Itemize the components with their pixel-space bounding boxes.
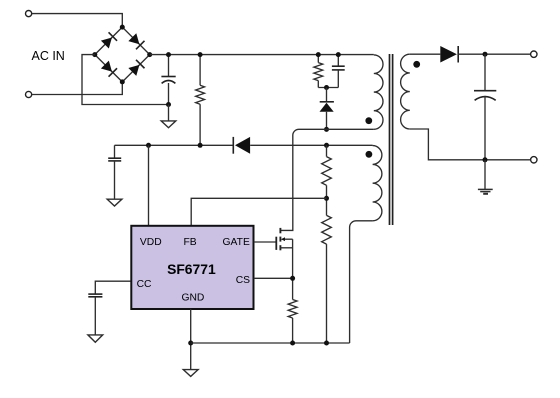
- resistor R6 aux divider lower: [322, 215, 332, 343]
- op IC U1 SF6771: [131, 226, 253, 309]
- secondary phase dot: [413, 61, 420, 68]
- primary phase dot: [365, 117, 372, 124]
- node bridge left vertex: [92, 52, 97, 57]
- label AC IN: [32, 49, 65, 63]
- pin label GND: [181, 292, 204, 303]
- transistor Q1 MOSFET: [276, 228, 292, 300]
- wire VDD rail left of D7: [115, 144, 234, 146]
- resistor R1 startup: [196, 55, 205, 146]
- output terminal bottom: [531, 157, 537, 163]
- earth ground (output): [478, 160, 493, 194]
- svg-text:AC IN: AC IN: [32, 49, 65, 63]
- node D5 anode / switch rail: [324, 127, 329, 132]
- pin label GATE: [223, 237, 250, 248]
- wire bridge left vertex to input ground node: [82, 55, 169, 105]
- wire snubber RC join: [318, 87, 338, 89]
- transformer auxiliary winding: [373, 146, 382, 221]
- capacitor C2 snubber: [332, 55, 345, 88]
- wire from bottom terminal to bridge bottom vertex: [32, 82, 123, 95]
- node bridge bottom vertex: [120, 79, 125, 84]
- bridge diode D2 (top vertex to right vertex): [128, 33, 144, 49]
- svg-text:SF6771: SF6771: [167, 261, 216, 277]
- diode D6 output rectifier: [440, 46, 530, 63]
- wire secondary bottom to output return: [410, 129, 531, 160]
- transformer core: [390, 54, 393, 225]
- node bridge right vertex: [147, 52, 152, 57]
- wire primary ground rail: [191, 342, 350, 344]
- svg-text:VDD: VDD: [140, 237, 162, 248]
- wire primary bottom to MOSFET drain: [280, 129, 373, 230]
- node GND rail: [188, 341, 193, 346]
- node R1 bottom: [198, 143, 203, 148]
- ground (CC cap): [88, 335, 103, 342]
- node CS / source: [290, 276, 295, 281]
- node aux divider bottom: [324, 341, 329, 346]
- wire from top terminal to bridge top vertex: [32, 14, 123, 28]
- node aux divider top: [324, 143, 329, 148]
- bridge diode D1 (left vertex to top vertex): [101, 32, 117, 48]
- pin label FB: [184, 237, 197, 248]
- diode D7 aux rectifier: [233, 137, 250, 154]
- bridge rectifier diamond: [95, 27, 150, 82]
- output terminal top: [531, 51, 537, 57]
- capacitor C3 VDD: [108, 145, 121, 199]
- resistor R7 current sense: [288, 300, 297, 344]
- svg-text:FB: FB: [184, 237, 197, 248]
- node C2 top: [336, 52, 341, 57]
- pin label VDD: [140, 237, 162, 248]
- wire GATE pin to MOSFET gate: [254, 241, 277, 243]
- wire top DC rail: [150, 54, 374, 56]
- capacitor C1 bulk: [161, 55, 175, 105]
- svg-text:CS: CS: [236, 275, 250, 286]
- node VDD stub: [146, 143, 151, 148]
- svg-text:GND: GND: [181, 292, 204, 303]
- capacitor C5 CC: [88, 294, 102, 335]
- node bridge top vertex: [120, 25, 125, 30]
- svg-text:CC: CC: [137, 279, 152, 290]
- ground (VDD cap): [107, 199, 122, 206]
- node R1 top: [198, 52, 203, 57]
- AC input terminal top: [26, 11, 32, 17]
- node C1 top: [166, 52, 171, 57]
- wire VDD rail right of D7 to aux winding: [250, 144, 372, 146]
- node sense resistor bottom: [290, 341, 295, 346]
- ground (input, below C1): [161, 105, 176, 128]
- wire VDD pin stub: [148, 145, 150, 225]
- aux phase dot: [366, 151, 373, 158]
- resistor R2 snubber: [314, 55, 323, 88]
- resistor R5 aux divider upper: [322, 145, 332, 215]
- node snubber join: [324, 85, 329, 90]
- node FB junction: [324, 196, 329, 201]
- node R2 top: [316, 52, 321, 57]
- diode D5 snubber clamp: [320, 88, 334, 130]
- wire GND pin down: [190, 309, 192, 370]
- ground (IC GND): [183, 370, 198, 377]
- wire secondary top to output diode: [410, 53, 441, 55]
- transformer primary winding: [374, 55, 383, 129]
- wire CC pin to C5: [95, 281, 130, 294]
- node output return: [483, 157, 488, 162]
- wire FB pin to divider: [191, 198, 326, 225]
- node C1 bottom / input ground: [166, 102, 171, 107]
- AC input terminal bottom: [26, 91, 32, 97]
- bridge diode D4 (bottom vertex to right vertex): [128, 60, 144, 76]
- pin label CC: [137, 279, 152, 290]
- bridge diode D3 (left vertex to bottom vertex): [101, 60, 117, 76]
- capacitor C4 output: [474, 54, 496, 160]
- svg-text:GATE: GATE: [223, 237, 250, 248]
- IC part number SF6771: [167, 261, 216, 277]
- transformer secondary winding: [401, 54, 410, 129]
- wire CS pin to source: [254, 277, 293, 279]
- pin label CS: [236, 275, 250, 286]
- wire aux winding bottom return: [350, 221, 373, 343]
- node output positive: [483, 52, 488, 57]
